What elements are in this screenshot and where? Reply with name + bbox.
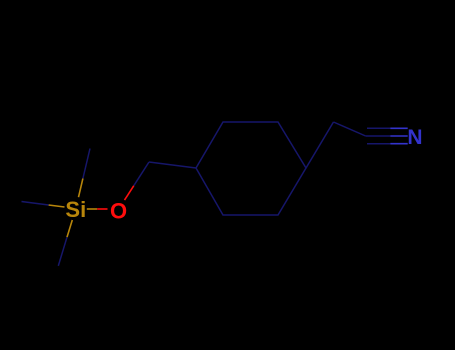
triple bond C#N top line (N half): [390, 127, 407, 129]
svg-text:Si: Si: [65, 197, 86, 222]
bond O-CH2 (red half): [125, 186, 134, 200]
bond CH2-C(nitrile): [334, 122, 366, 136]
bond Si-O (red half): [97, 208, 107, 210]
bond CH2-ring left vertex: [149, 162, 196, 168]
bond ring right vertex-CH2: [306, 122, 334, 168]
svg-text:O: O: [110, 198, 127, 223]
bond Si-CH3 left (gold half): [49, 205, 65, 207]
triple bond C#N middle line (carbon half): [366, 135, 391, 137]
bond Si-O (gold half): [87, 208, 97, 210]
triple bond C#N middle line (N half): [390, 135, 407, 137]
bond Si-CH3 up (carbon half): [83, 149, 90, 179]
bond Si-CH3 up (gold half): [79, 179, 83, 198]
bond Si-CH3 down (gold half): [67, 220, 72, 237]
triple bond C#N top line (carbon half): [367, 127, 390, 129]
ring cyclohexane: [196, 122, 306, 215]
bond O-CH2 (carbon half): [134, 162, 149, 186]
triple bond C#N bottom line (carbon half): [367, 143, 390, 145]
bond Si-CH3 down (carbon half): [58, 237, 67, 266]
triple bond C#N bottom line (N half): [390, 143, 407, 145]
svg-text:N: N: [407, 126, 422, 149]
bond Si-CH3 left (carbon half): [22, 202, 49, 206]
